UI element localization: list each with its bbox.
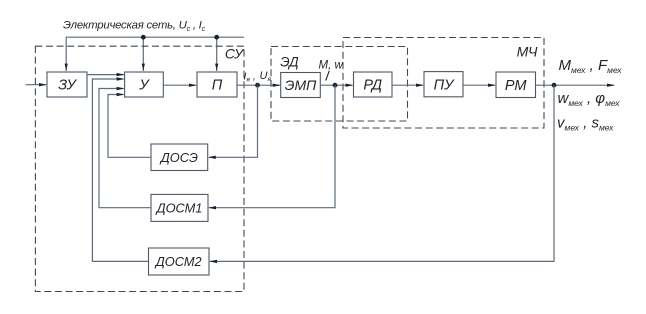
node after ЭМП (М, w) — [333, 83, 338, 88]
dashed box МЧ — [343, 38, 544, 129]
wire: ЭМП output tap down to ДОСМ1 — [209, 85, 335, 208]
svg-text:ДОСЭ: ДОСЭ — [159, 150, 198, 165]
node label: Электрическая сеть, Uc, Ic — [63, 20, 206, 34]
block РМ — [496, 72, 536, 98]
svg-text:ЭД: ЭД — [280, 55, 299, 70]
block ПУ — [424, 72, 463, 97]
arrow into ЗУ top — [65, 64, 68, 71]
arrow into РМ — [488, 84, 496, 87]
arrow into ЭМП — [273, 84, 281, 87]
wire: supply bus (net Электрическая сеть) — [66, 37, 244, 71]
arrow into П — [189, 84, 197, 87]
block П — [197, 72, 237, 97]
block ДОСЭ — [151, 144, 208, 171]
svg-text:РМ: РМ — [505, 78, 528, 94]
arrow into У input 2 — [117, 77, 125, 80]
wire РМ to output — [536, 84, 615, 86]
wire: П output tap down to ДОСЭ — [209, 85, 258, 157]
arrow into У input 4 — [117, 93, 125, 96]
wire РД to ПУ — [392, 84, 423, 86]
svg-text:У: У — [138, 78, 150, 94]
arrow into У top — [142, 64, 145, 71]
junction on bus above П — [214, 35, 219, 40]
wire: РМ output tap down to ДОСМ2 — [210, 85, 554, 261]
svg-text:П: П — [212, 78, 223, 94]
wire: ДОСМ2 feedback to У — [92, 79, 148, 261]
label subscript i under М — [326, 71, 330, 81]
wire ЭМП to РД — [320, 84, 352, 86]
arrow into ДОСЭ right — [208, 156, 216, 159]
block ДОСМ2 — [149, 248, 210, 275]
wire ЗУ to У — [87, 74, 124, 76]
node after РМ (mechanical output) — [552, 83, 557, 88]
block РД — [354, 72, 393, 97]
dashed box ЭД — [271, 47, 408, 122]
svg-text:ДОСМ1: ДОСМ1 — [155, 201, 203, 216]
svg-text:Iя ,: Iя , — [244, 71, 256, 84]
arrow into ЗУ left — [39, 83, 47, 86]
svg-text:М,: М, — [319, 60, 332, 72]
svg-text:ПУ: ПУ — [434, 78, 456, 94]
wire У to П — [163, 84, 196, 86]
arrow into П top — [215, 64, 218, 71]
arrow into ДОСМ1 right — [208, 206, 216, 209]
wire: bus drop to У — [142, 37, 144, 71]
arrow into РД — [346, 84, 354, 87]
svg-text:ЭМП: ЭМП — [285, 77, 317, 93]
svg-text:ДОСМ2: ДОСМ2 — [154, 254, 202, 269]
junction on bus above У — [141, 35, 146, 40]
wire ПУ to РМ — [463, 84, 495, 86]
arrow into ПУ — [416, 84, 424, 87]
svg-text:СУ: СУ — [225, 46, 245, 62]
wire: bus drop to П — [216, 37, 218, 71]
svg-text:Электрическая сеть, Uс , Iс: Электрическая сеть, Uс , Iс — [63, 20, 206, 34]
block ЭМП — [281, 73, 321, 98]
wire: ДОСМ1 feedback to У — [99, 89, 151, 208]
wire: ДОСЭ feedback to У — [108, 95, 151, 158]
node after П (Iя, Uя) — [255, 83, 260, 88]
svg-text:РД: РД — [363, 78, 382, 94]
svg-text:w: w — [335, 60, 344, 72]
arrow into У input 3 — [117, 87, 125, 90]
arrow into У input 1 — [117, 73, 125, 76]
block ДОСМ1 — [151, 194, 208, 221]
arrow output right — [607, 84, 615, 87]
svg-text:МЧ: МЧ — [517, 44, 538, 60]
block ЗУ — [47, 72, 87, 97]
block У — [125, 72, 164, 97]
arrow into ДОСМ2 right — [209, 260, 217, 263]
dashed box СУ — [35, 46, 244, 291]
wire П to ЭМП — [237, 84, 280, 86]
wire: setpoint input — [26, 84, 47, 86]
svg-text:ЗУ: ЗУ — [58, 78, 77, 94]
